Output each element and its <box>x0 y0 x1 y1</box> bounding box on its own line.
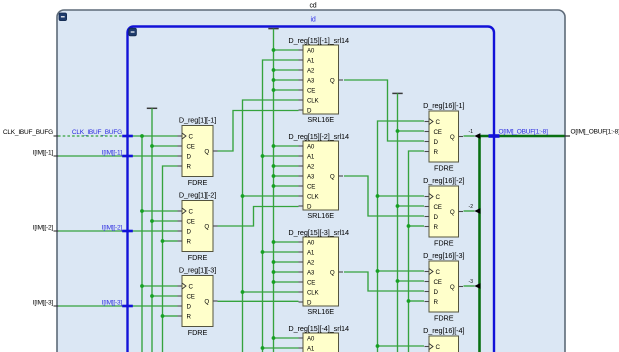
svg-text:A0: A0 <box>307 143 315 150</box>
svg-text:FDRE: FDRE <box>434 239 454 248</box>
svg-text:Q: Q <box>330 173 335 180</box>
svg-text:A1: A1 <box>307 57 315 64</box>
port marker I[IM][-3] on id border <box>122 305 133 308</box>
wire A1 net vertical <box>263 60 299 352</box>
net stub marker CE right <box>392 92 402 94</box>
svg-text:I[IM][-1]: I[IM][-1] <box>102 150 123 157</box>
wire external I[IM][-3] stub <box>54 305 59 307</box>
wire clock to C of D_reg[1][-3] <box>142 285 178 287</box>
svg-text:Q: Q <box>330 77 335 84</box>
svg-text:D_reg[16][-2]: D_reg[16][-2] <box>423 176 464 185</box>
bus ripper arrow -2 <box>474 208 480 214</box>
svg-text:CE: CE <box>434 129 442 136</box>
wire clock vertical <box>141 136 143 352</box>
svg-text:FDRE: FDRE <box>188 253 208 262</box>
junction address net <box>272 336 276 340</box>
wire address branch y=146 <box>274 145 299 147</box>
svg-text:R: R <box>434 149 439 156</box>
svg-text:D: D <box>307 299 312 306</box>
junction address net <box>272 48 276 52</box>
shift register U6 (D_reg[15][-3]_srl14) <box>288 228 349 316</box>
wire CLK to SRL2 <box>243 195 299 197</box>
wire D_reg[1][-3].Q to SRL3.D <box>218 300 299 302</box>
junction address net <box>272 164 276 168</box>
svg-text:id: id <box>310 17 315 24</box>
junction R-left <box>161 239 165 243</box>
port marker I[IM][-2] on id border <box>122 230 133 233</box>
wire C to D_reg[16][-2] <box>378 195 425 197</box>
wire address branch y=176 <box>274 175 299 177</box>
svg-text:R: R <box>434 224 439 231</box>
wire clock dashed segment <box>58 135 125 137</box>
wire CE-left vertical <box>151 108 153 352</box>
svg-text:Q: Q <box>204 298 209 305</box>
svg-text:C: C <box>189 133 194 140</box>
svg-text:Q: Q <box>204 148 209 155</box>
wire address branch y=272 <box>274 271 299 273</box>
wire address branch y=166 <box>274 165 299 167</box>
svg-text:I[IM][-3]: I[IM][-3] <box>102 300 123 307</box>
svg-text:FDRE: FDRE <box>434 164 454 173</box>
wire R-left from D_reg[1][-1] <box>163 166 178 352</box>
wire address branch y=338 <box>274 337 299 339</box>
svg-text:SRL16E: SRL16E <box>307 307 334 316</box>
junction address net <box>272 280 276 284</box>
svg-text:cd: cd <box>310 3 317 10</box>
svg-text:C: C <box>436 269 441 276</box>
junction CE-right <box>396 204 400 208</box>
junction clock net <box>140 284 144 288</box>
junction address net <box>272 68 276 72</box>
wire A1 to SRL3 <box>263 251 299 253</box>
svg-text:A2: A2 <box>307 259 315 266</box>
junction CE-left <box>150 219 154 223</box>
wire CE-right vertical <box>397 93 399 352</box>
svg-text:D_reg[15][-3]_srl14: D_reg[15][-3]_srl14 <box>288 228 349 237</box>
svg-text:SRL16E: SRL16E <box>307 211 334 220</box>
flip-flop U8 (D_reg[16][-1]) <box>423 101 464 173</box>
module box id <box>128 27 495 352</box>
junction address net <box>272 260 276 264</box>
svg-text:R: R <box>187 313 192 320</box>
shift register U7 (D_reg[15][-4]_srl14) <box>288 324 349 352</box>
junction address net <box>272 88 276 92</box>
wire SRL3.Q to D_reg[16][-3].D <box>344 272 424 291</box>
wire external O[IM]_OBUF stub <box>565 135 571 137</box>
bus O[IM]_OBUF horizontal <box>478 135 564 138</box>
wire R to D_reg[1][-2] <box>163 240 178 242</box>
junction CE-right <box>396 129 400 133</box>
svg-text:SRL16E: SRL16E <box>307 115 334 124</box>
wire I[IM][-3] to D pin <box>58 305 178 307</box>
svg-text:CE: CE <box>434 204 442 211</box>
wire R to D_reg[1][-3] <box>163 315 178 317</box>
wire clock to C of D_reg[1][-2] <box>142 210 178 212</box>
svg-text:I[IM][-2]: I[IM][-2] <box>33 225 54 232</box>
bus O[IM]_OBUF vertical <box>478 136 481 352</box>
wire CE to D_reg[1][-2] <box>152 220 178 222</box>
wire SRL CLK net <box>243 100 299 352</box>
wire address branch y=262 <box>274 261 299 263</box>
svg-text:CE: CE <box>434 279 442 286</box>
svg-text:FDRE: FDRE <box>188 178 208 187</box>
svg-text:O[IM]_OBUF[1:-8]: O[IM]_OBUF[1:-8] <box>571 129 619 136</box>
wire I[IM][-1] to D pin <box>58 155 178 157</box>
junction address net <box>272 78 276 82</box>
wire address branch y=90 <box>274 89 299 91</box>
junction C-right <box>376 269 380 273</box>
svg-text:D_reg[15][-2]_srl14: D_reg[15][-2]_srl14 <box>288 132 349 141</box>
svg-text:O[IM]_OBUF[1:-8]: O[IM]_OBUF[1:-8] <box>499 129 549 136</box>
wire A1 to SRL2 <box>263 155 299 157</box>
junction SRL CLK <box>241 290 245 294</box>
wire clock to C of D_reg[1][-1] <box>130 135 178 137</box>
junction C-right <box>376 344 380 348</box>
shift register U5 (D_reg[15][-2]_srl14) <box>288 132 349 220</box>
svg-text:C: C <box>189 283 194 290</box>
svg-text:A2: A2 <box>307 163 315 170</box>
svg-text:Q: Q <box>204 223 209 230</box>
svg-text:A3: A3 <box>307 173 315 180</box>
wire C to D_reg[16][-4] <box>378 345 425 347</box>
svg-text:D_reg[1][-3]: D_reg[1][-3] <box>179 266 216 275</box>
junction SRL CLK <box>241 194 245 198</box>
wire D_reg[1][-1].Q to SRL1.D <box>218 111 299 152</box>
collapse button id <box>129 28 137 36</box>
svg-text:CE: CE <box>187 218 195 225</box>
wire SRL address net vertical <box>273 29 275 352</box>
svg-text:D: D <box>434 139 439 146</box>
port marker CLK on id border <box>122 135 133 138</box>
svg-text:A3: A3 <box>307 269 315 276</box>
svg-text:C: C <box>436 344 441 351</box>
junction CE-left <box>150 294 154 298</box>
svg-text:CLK_IBUF_BUFG: CLK_IBUF_BUFG <box>3 129 53 136</box>
junction address net <box>272 270 276 274</box>
svg-text:A1: A1 <box>307 153 315 160</box>
wire external CLK stub <box>54 135 59 137</box>
svg-text:A0: A0 <box>307 335 315 342</box>
flip-flop U3 (D_reg[1][-3]) <box>178 266 218 338</box>
junction clock net <box>140 134 144 138</box>
svg-text:CE: CE <box>307 183 315 190</box>
svg-text:D_reg[16][-3]: D_reg[16][-3] <box>423 251 464 260</box>
svg-text:I[IM][-1]: I[IM][-1] <box>33 150 54 157</box>
svg-text:Q: Q <box>330 269 335 276</box>
svg-text:C: C <box>189 208 194 215</box>
wire address branch y=282 <box>274 281 299 283</box>
svg-text:D: D <box>434 214 439 221</box>
svg-text:A0: A0 <box>307 239 315 246</box>
wire R to D_reg[16][-2] <box>409 225 425 227</box>
module box cd <box>57 10 565 352</box>
svg-text:C: C <box>436 119 441 126</box>
svg-text:D: D <box>187 228 192 235</box>
junction A1 net <box>261 250 265 254</box>
svg-text:R: R <box>187 238 192 245</box>
wire address branch y=50 <box>274 49 299 51</box>
flip-flop U9 (D_reg[16][-2]) <box>423 176 464 248</box>
wire address branch y=80 <box>274 79 299 81</box>
junction clock net <box>140 209 144 213</box>
wire Q tap -3 <box>464 285 475 287</box>
net stub marker SRL address <box>268 28 278 30</box>
svg-text:CLK: CLK <box>307 289 320 296</box>
svg-text:CLK: CLK <box>307 97 320 104</box>
svg-text:-2: -2 <box>469 204 474 210</box>
junction R-right <box>407 299 411 303</box>
svg-text:D_reg[1][-1]: D_reg[1][-1] <box>179 116 216 125</box>
junction C-right <box>376 194 380 198</box>
wire CE to D_reg[16][-3] <box>398 280 425 282</box>
wire C to D_reg[16][-3] <box>378 270 425 272</box>
svg-text:FDRE: FDRE <box>188 328 208 337</box>
svg-text:D: D <box>187 153 192 160</box>
svg-text:A1: A1 <box>307 249 315 256</box>
junction address net <box>272 240 276 244</box>
wire external I[IM][-2] stub <box>54 230 59 232</box>
junction R-right <box>407 224 411 228</box>
wire A1 to SRL4 <box>263 347 299 349</box>
wire CE to D_reg[1][-1] <box>152 145 178 147</box>
svg-text:R: R <box>434 299 439 306</box>
svg-text:Q: Q <box>450 209 455 216</box>
svg-text:CE: CE <box>187 293 195 300</box>
svg-text:I[IM][-2]: I[IM][-2] <box>102 225 123 232</box>
svg-text:CE: CE <box>307 87 315 94</box>
wire SRL2.Q to D_reg[16][-2].D <box>344 176 424 216</box>
svg-text:D: D <box>307 107 312 114</box>
wire Q tap -1 <box>464 135 475 137</box>
svg-text:CE: CE <box>187 143 195 150</box>
wire external I[IM][-1] stub <box>54 155 59 157</box>
svg-text:I[IM][-3]: I[IM][-3] <box>33 300 54 307</box>
wire address branch y=70 <box>274 69 299 71</box>
svg-text:D_reg[15][-4]_srl14: D_reg[15][-4]_srl14 <box>288 324 349 333</box>
bus ripper arrow -1 <box>474 133 480 139</box>
port marker O[IM]_OBUF on id border <box>489 134 500 138</box>
svg-text:CLK_IBUF_BUFG: CLK_IBUF_BUFG <box>72 129 122 136</box>
wire CLK to SRL3 <box>243 291 299 293</box>
svg-text:C: C <box>436 194 441 201</box>
bus ripper arrow -3 <box>474 283 480 289</box>
svg-text:D_reg[16][-1]: D_reg[16][-1] <box>423 101 464 110</box>
svg-text:D_reg[15][-1]_srl14: D_reg[15][-1]_srl14 <box>288 36 349 45</box>
svg-text:A1: A1 <box>307 345 315 352</box>
svg-text:CLK: CLK <box>307 193 320 200</box>
wire D_reg[1][-2].Q to SRL2.D <box>218 207 299 227</box>
wire address branch y=242 <box>274 241 299 243</box>
svg-text:Q: Q <box>450 134 455 141</box>
junction R-left <box>161 314 165 318</box>
junction CE-left <box>150 144 154 148</box>
wire address branch y=186 <box>274 185 299 187</box>
svg-text:D: D <box>434 289 439 296</box>
wire CE to D_reg[16][-1] <box>398 130 425 132</box>
shift register U4 (D_reg[15][-1]_srl14) <box>288 36 349 124</box>
junction CE-right <box>396 279 400 283</box>
svg-text:-1: -1 <box>469 129 474 135</box>
flip-flop U2 (D_reg[1][-2]) <box>178 191 218 263</box>
junction address net <box>272 174 276 178</box>
svg-text:A3: A3 <box>307 77 315 84</box>
svg-text:CE: CE <box>307 279 315 286</box>
flip-flop U11 (D_reg[16][-4]) <box>423 326 464 352</box>
net stub marker CE left <box>147 107 157 109</box>
junction A1 net <box>261 154 265 158</box>
junction address net <box>272 184 276 188</box>
wire R-right net <box>409 151 425 352</box>
junction A1 net <box>261 346 265 350</box>
svg-text:-3: -3 <box>469 279 474 285</box>
svg-text:FDRE: FDRE <box>434 314 454 323</box>
collapse button cd <box>59 13 67 21</box>
svg-text:R: R <box>187 163 192 170</box>
wire R to D_reg[16][-3] <box>409 300 425 302</box>
svg-text:D_reg[16][-4]: D_reg[16][-4] <box>423 326 464 335</box>
wire SRL1.Q to D_reg[16][-1].D <box>344 80 424 141</box>
wire I[IM][-2] to D pin <box>58 230 178 232</box>
wire CE to D_reg[16][-2] <box>398 205 425 207</box>
flip-flop U1 (D_reg[1][-1]) <box>178 116 218 188</box>
flip-flop U10 (D_reg[16][-3]) <box>423 251 464 323</box>
svg-text:D: D <box>307 203 312 210</box>
port marker I[IM][-1] on id border <box>122 155 133 158</box>
svg-text:D: D <box>187 303 192 310</box>
svg-text:Q: Q <box>450 284 455 291</box>
wire CE to D_reg[1][-3] <box>152 295 178 297</box>
wire Q tap -2 <box>464 210 475 212</box>
junction address net <box>272 144 276 148</box>
svg-text:A0: A0 <box>307 47 315 54</box>
svg-text:D_reg[1][-2]: D_reg[1][-2] <box>179 191 216 200</box>
wire C-right net <box>378 121 425 352</box>
svg-text:A2: A2 <box>307 67 315 74</box>
